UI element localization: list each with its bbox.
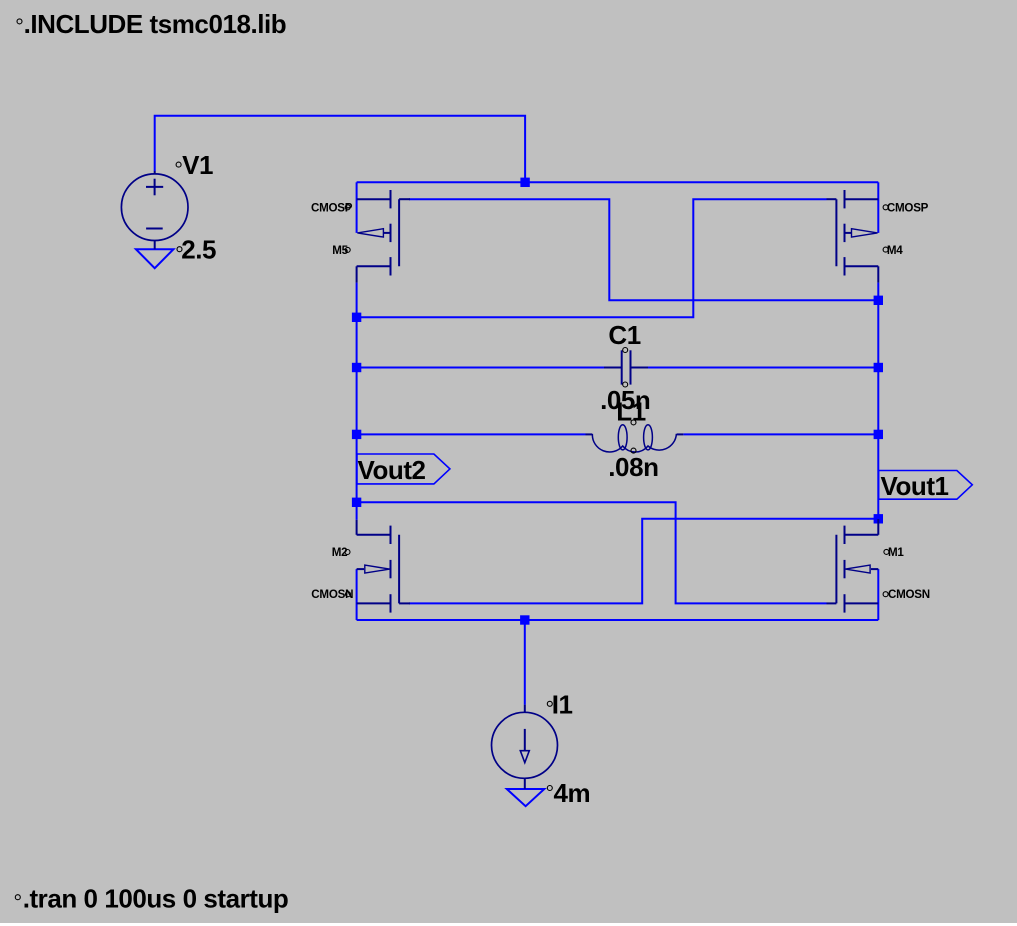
svg-text:C1: C1	[608, 320, 640, 350]
svg-text:M1: M1	[888, 546, 904, 559]
svg-text:CMOSP: CMOSP	[887, 202, 929, 215]
svg-text:M5: M5	[332, 244, 348, 257]
svg-text:CMOSN: CMOSN	[888, 588, 930, 601]
svg-text:.tran 0 100us 0 startup: .tran 0 100us 0 startup	[23, 883, 289, 913]
svg-text:CMOSP: CMOSP	[311, 202, 353, 215]
svg-text:4m: 4m	[554, 778, 591, 808]
svg-text:Vout1: Vout1	[881, 471, 949, 501]
svg-text:V1: V1	[182, 150, 213, 180]
svg-text:2.5: 2.5	[181, 235, 216, 265]
svg-text:CMOSN: CMOSN	[311, 588, 353, 601]
svg-text:I1: I1	[552, 689, 573, 719]
svg-text:.08n: .08n	[608, 452, 658, 482]
svg-text:L1: L1	[616, 397, 645, 427]
svg-text:Vout2: Vout2	[358, 455, 426, 485]
svg-text:M2: M2	[332, 546, 348, 559]
svg-text:M4: M4	[887, 244, 903, 257]
svg-text:.INCLUDE tsmc018.lib: .INCLUDE tsmc018.lib	[24, 9, 287, 39]
